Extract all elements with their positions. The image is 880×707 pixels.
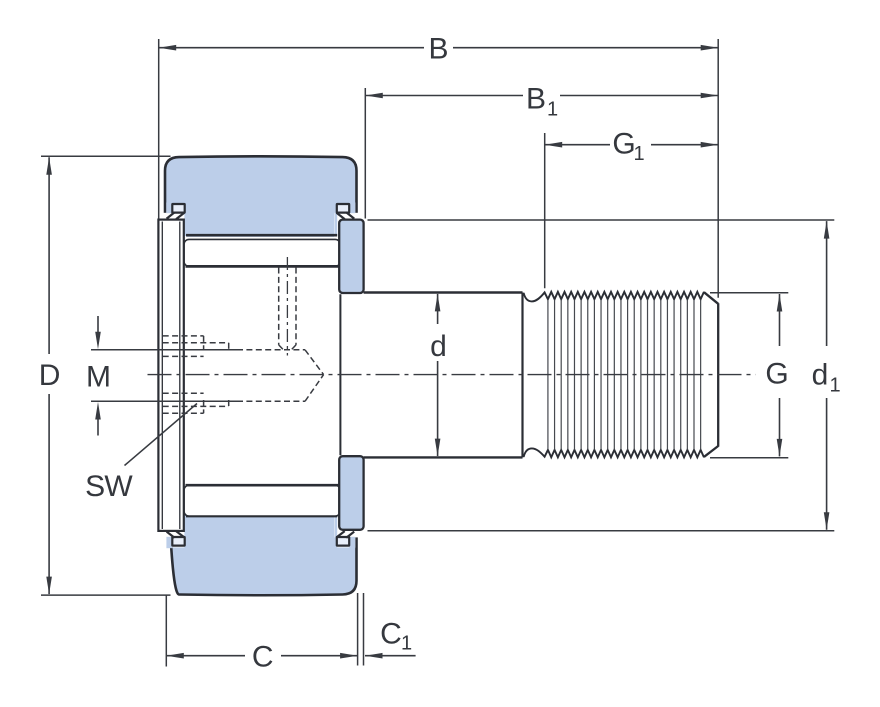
svg-text:B: B — [526, 83, 546, 116]
svg-text:G: G — [612, 128, 635, 161]
svg-text:d: d — [430, 330, 447, 363]
svg-text:1: 1 — [547, 99, 558, 121]
svg-text:1: 1 — [829, 375, 840, 397]
svg-text:M: M — [86, 361, 111, 394]
svg-text:1: 1 — [401, 633, 412, 655]
svg-text:C: C — [252, 640, 274, 673]
svg-text:1: 1 — [633, 143, 644, 165]
svg-text:B: B — [428, 33, 448, 66]
svg-text:C: C — [380, 617, 402, 650]
svg-text:G: G — [765, 357, 788, 390]
svg-text:D: D — [39, 359, 61, 392]
svg-text:d: d — [812, 359, 829, 392]
svg-text:SW: SW — [85, 470, 133, 503]
